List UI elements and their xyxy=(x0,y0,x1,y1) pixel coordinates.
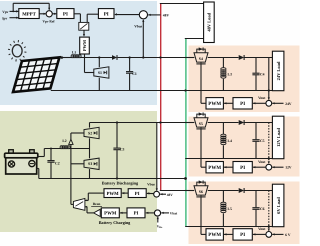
transistor S6 xyxy=(194,186,208,195)
transistor S1 xyxy=(98,58,100,68)
svg-text:S4: S4 xyxy=(199,57,203,61)
svg-text:6V Load: 6V Load xyxy=(276,197,281,214)
wire Vout sense xyxy=(268,123,270,164)
svg-text:Vpv: Vpv xyxy=(2,10,8,14)
wire 48V reference xyxy=(148,14,160,16)
wire summing to PI xyxy=(253,102,266,104)
svg-text:PI: PI xyxy=(104,11,109,17)
wire buffer to selector xyxy=(87,212,94,214)
wire input rail S4 xyxy=(185,57,194,59)
wire selector output xyxy=(71,203,74,205)
PWM modulator xyxy=(206,162,223,173)
PI controller (discharge) xyxy=(128,189,146,198)
node summing junction discharge xyxy=(154,191,160,197)
wire Vout sense xyxy=(268,58,270,100)
wire Vbat input xyxy=(161,212,169,214)
svg-text:Vbat: Vbat xyxy=(170,211,178,215)
svg-text:L3: L3 xyxy=(228,73,232,77)
48V Load box xyxy=(204,2,215,43)
svg-text:L4: L4 xyxy=(228,139,232,143)
svg-text:C3: C3 xyxy=(120,147,125,151)
capacitor C6 xyxy=(255,191,257,208)
wire Vpv feedback xyxy=(12,3,14,11)
svg-text:C1: C1 xyxy=(132,72,137,76)
svg-text:PI: PI xyxy=(63,11,68,17)
node output summing junction xyxy=(266,232,272,238)
svg-text:PI: PI xyxy=(240,165,245,171)
svg-text:MPPT: MPPT xyxy=(22,11,36,17)
svg-text:48V: 48V xyxy=(163,14,170,18)
wire Vout sense xyxy=(268,191,270,231)
PWM modulator (boost) xyxy=(80,37,90,54)
node summing junction charge xyxy=(154,210,160,216)
svg-text:Vbus: Vbus xyxy=(134,24,143,28)
capacitor C4 xyxy=(255,58,257,73)
sun xyxy=(8,40,26,61)
diode D1 xyxy=(112,55,117,60)
inductor L4 xyxy=(222,123,224,135)
capacitor C5 xyxy=(255,123,257,140)
svg-text:Vout: Vout xyxy=(258,227,266,231)
diode xyxy=(239,120,244,125)
transistor S2 xyxy=(89,123,91,128)
load box 12V Load xyxy=(272,116,284,159)
DC bus (red) xyxy=(160,4,162,191)
wire gate bus xyxy=(70,133,72,204)
svg-text:S3: S3 xyxy=(88,162,92,166)
svg-text:L5: L5 xyxy=(228,207,232,211)
return bus (green) xyxy=(185,39,187,227)
wire summing to PI (discharge) xyxy=(147,192,154,194)
capacitor C2 xyxy=(50,149,52,161)
wire input rail S5 xyxy=(185,122,194,124)
wire Vbus sense (battery) xyxy=(156,123,158,191)
wire Ipv input xyxy=(10,17,19,19)
MPPT block xyxy=(19,9,39,19)
svg-text:Vbus: Vbus xyxy=(147,182,155,186)
node summing junction PV xyxy=(39,13,45,15)
wire selector to PWM xyxy=(83,30,85,36)
wire L1 to S1 node xyxy=(80,57,112,59)
svg-text:12V: 12V xyxy=(285,166,292,170)
selector switch box xyxy=(79,22,89,30)
wire PI to PWM xyxy=(224,166,233,168)
inductor L1 xyxy=(71,55,74,58)
capacitor C3 xyxy=(116,123,118,148)
load box 24V Load xyxy=(272,51,284,90)
wire gate drive xyxy=(201,102,206,104)
wire PWM to selector (discharge) xyxy=(88,192,104,194)
wire summing to PI xyxy=(253,233,266,235)
svg-text:PWM: PWM xyxy=(104,211,117,217)
svg-text:48V: 48V xyxy=(167,193,174,197)
12V converter panel (peach) xyxy=(189,117,300,177)
wire PI1 to selector xyxy=(74,13,80,15)
node output summing junction xyxy=(266,100,272,106)
inductor L3 xyxy=(222,58,224,68)
wire summing to PI2 xyxy=(115,14,139,16)
svg-text:Ipv: Ipv xyxy=(2,16,7,20)
node summing junction Vbus xyxy=(139,11,147,19)
svg-text:C5: C5 xyxy=(260,139,265,143)
wire battery positive xyxy=(37,156,44,158)
svg-text:48V Load: 48V Load xyxy=(207,12,212,31)
svg-text:S5: S5 xyxy=(199,122,203,126)
wire gate drive xyxy=(201,166,206,168)
node gate arrow xyxy=(69,139,73,144)
buffer gate (charge) xyxy=(94,209,101,216)
wire input rail S6 xyxy=(185,190,194,192)
wire summing to PI xyxy=(253,166,266,168)
svg-text:L1: L1 xyxy=(72,50,76,54)
wire PI2 to selector xyxy=(87,13,98,15)
PWM modulator xyxy=(206,98,223,109)
svg-text:Bcon: Bcon xyxy=(93,202,101,206)
wire PI to PWM (discharge) xyxy=(122,192,128,194)
wire phase rail xyxy=(44,148,60,150)
svg-text:PI: PI xyxy=(134,211,139,217)
transistor S3 xyxy=(89,149,91,159)
wire Vbus sense xyxy=(142,20,144,58)
wire battery negative xyxy=(36,168,39,170)
PI controller xyxy=(233,98,252,109)
svg-text:C2: C2 xyxy=(55,162,60,166)
wire voltage reference xyxy=(272,233,283,235)
PI controller xyxy=(233,162,252,173)
wire diode to bus xyxy=(118,57,195,59)
PWM modulator xyxy=(206,229,223,240)
wire Vbat reference xyxy=(157,217,159,223)
wire to PI1 xyxy=(52,13,56,15)
svg-text:Battery Charging: Battery Charging xyxy=(99,220,131,225)
wire phase node xyxy=(69,148,89,150)
wire voltage reference xyxy=(272,166,283,168)
selector mux Bcon xyxy=(73,199,85,211)
wire PV output rail xyxy=(59,57,71,59)
svg-text:PI: PI xyxy=(240,232,245,238)
capacitor C1 xyxy=(129,58,131,72)
svg-text:Vout: Vout xyxy=(258,96,266,100)
diode xyxy=(239,55,244,60)
PWM modulator (charge) xyxy=(101,208,119,218)
wire output rail xyxy=(208,190,239,192)
24V converter panel (peach) xyxy=(189,46,300,113)
wire 48V load return xyxy=(185,38,204,40)
transistor S4 xyxy=(194,53,208,62)
svg-text:PWM: PWM xyxy=(82,39,87,51)
svg-text:S6: S6 xyxy=(199,190,203,194)
PI controller xyxy=(233,229,252,240)
svg-text:PI: PI xyxy=(135,191,140,197)
wire PI to PWM xyxy=(224,233,233,235)
wire Vpv input xyxy=(10,10,19,12)
wire PWM to S1 gate xyxy=(84,54,86,73)
wire PI to PWM (charge) xyxy=(120,212,127,214)
svg-text:PWM: PWM xyxy=(208,101,221,107)
battery xyxy=(5,150,38,174)
wire half-bridge rail xyxy=(90,122,195,124)
svg-text:S2: S2 xyxy=(88,131,92,135)
svg-text:C4: C4 xyxy=(260,73,265,77)
node output summing junction xyxy=(266,164,272,170)
PV boost converter panel (blue) xyxy=(0,1,157,105)
svg-text:Battery Discharging: Battery Discharging xyxy=(102,181,139,186)
wire summing to PI (charge) xyxy=(146,212,155,214)
wire 48V reference (discharge) xyxy=(160,193,166,195)
wire ground rail xyxy=(51,90,274,92)
svg-text:24V: 24V xyxy=(285,102,292,106)
svg-text:12V Load: 12V Load xyxy=(276,128,281,147)
wire ground rail xyxy=(185,158,272,160)
PI controller U2 xyxy=(98,9,114,19)
svg-text:Vout: Vout xyxy=(258,160,266,164)
battery converter panel (green) xyxy=(0,111,157,232)
transistor S5 xyxy=(194,118,208,127)
wire gate drive xyxy=(201,233,206,235)
svg-text:PWM: PWM xyxy=(208,165,221,171)
svg-text:Vpv Ref: Vpv Ref xyxy=(43,20,56,24)
svg-text:S1: S1 xyxy=(98,71,102,75)
inductor L2 xyxy=(60,146,63,149)
wire bus to 48V load xyxy=(160,3,204,5)
inductor L5 xyxy=(222,191,224,203)
wire battery ground rail xyxy=(39,178,186,180)
wire output rail xyxy=(208,57,239,59)
PWM modulator (discharge) xyxy=(104,189,121,198)
wire voltage reference xyxy=(272,102,283,104)
solar PV panel xyxy=(13,57,59,92)
wire PI to PWM xyxy=(224,102,233,104)
load box 6V Load xyxy=(272,184,284,227)
svg-text:PWM: PWM xyxy=(106,191,119,197)
svg-text:6 V: 6 V xyxy=(285,233,291,237)
wire ground rail xyxy=(185,226,272,228)
PI controller (charge) xyxy=(127,208,145,218)
wire output rail xyxy=(208,122,239,124)
svg-text:PI: PI xyxy=(240,101,245,107)
svg-text:L2: L2 xyxy=(62,139,66,143)
svg-text:24V Load: 24V Load xyxy=(276,61,281,80)
6V converter panel (peach) xyxy=(189,182,300,245)
wire red bus to 6V converter xyxy=(160,190,185,192)
svg-text:PWM: PWM xyxy=(208,232,221,238)
PI controller U1 xyxy=(57,9,74,19)
diode xyxy=(239,188,244,193)
svg-text:C6: C6 xyxy=(260,207,265,211)
